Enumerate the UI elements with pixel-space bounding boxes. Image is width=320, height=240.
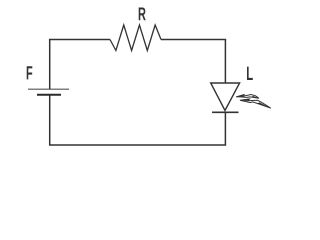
wire left lower segment [49,95,51,145]
wire left upper segment [49,40,51,90]
LED L diode triangle [211,83,240,111]
battery F positive long plate [28,88,69,90]
LED light arrow lower [240,99,271,108]
LED cathode bar [212,111,239,113]
battery F negative short plate [37,94,61,96]
wire right lower segment [224,112,226,145]
wire top-left segment [49,39,110,41]
wire right upper segment [224,40,226,84]
label F [27,66,33,79]
label L [247,67,253,80]
label R [139,8,146,21]
wire bottom segment [49,144,226,146]
wire top-right segment [161,39,226,41]
resistor R [110,25,161,51]
LED light arrow upper [236,95,259,99]
